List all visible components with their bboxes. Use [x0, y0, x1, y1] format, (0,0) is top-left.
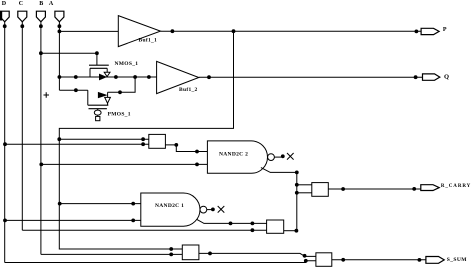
svg-text:C: C [19, 1, 23, 7]
svg-text:B: B [39, 1, 43, 7]
svg-text:NMOS_1: NMOS_1 [115, 61, 139, 67]
svg-text:P: P [443, 27, 447, 33]
svg-text:PMOS_1: PMOS_1 [108, 111, 131, 117]
svg-text:S_SUM: S_SUM [447, 257, 467, 263]
svg-text:NAND2C 2: NAND2C 2 [219, 152, 248, 158]
svg-text:Buf1_1: Buf1_1 [139, 38, 158, 44]
svg-text:R_CARRY: R_CARRY [441, 184, 471, 189]
svg-text:Buf1_2: Buf1_2 [179, 87, 198, 93]
svg-text:D: D [2, 1, 7, 7]
svg-text:Q: Q [444, 74, 449, 81]
svg-text:NAND2C 1: NAND2C 1 [155, 203, 184, 209]
svg-text:A: A [49, 1, 54, 7]
